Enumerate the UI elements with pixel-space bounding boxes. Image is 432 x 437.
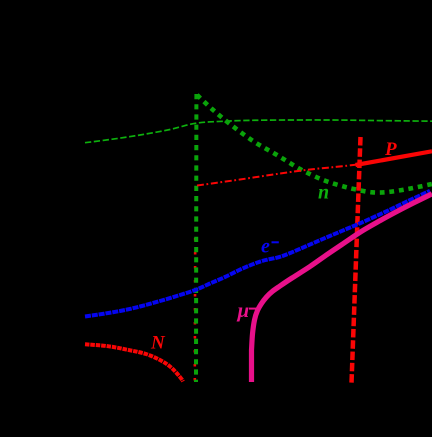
svg-text:n: n [318,181,329,203]
svg-text:e: e [261,235,270,257]
red dashed vertical boundary line x=360..351 [352,137,361,383]
thick green dotted n curve [197,95,432,193]
red N curve [85,344,183,381]
svg-text:μ: μ [237,298,250,322]
red dotted vertical boundary (under green) at x=195 [194,238,197,382]
magenta mu- curve [252,194,432,382]
svg-text:P: P [384,139,397,160]
thin green dashed curve [85,120,432,143]
blue e- curve [85,191,430,317]
green dashed vertical boundary line x=196 [194,94,198,382]
thin red dash-dot curve [197,165,357,186]
thick red P line [356,151,432,165]
svg-text:N: N [150,333,166,354]
